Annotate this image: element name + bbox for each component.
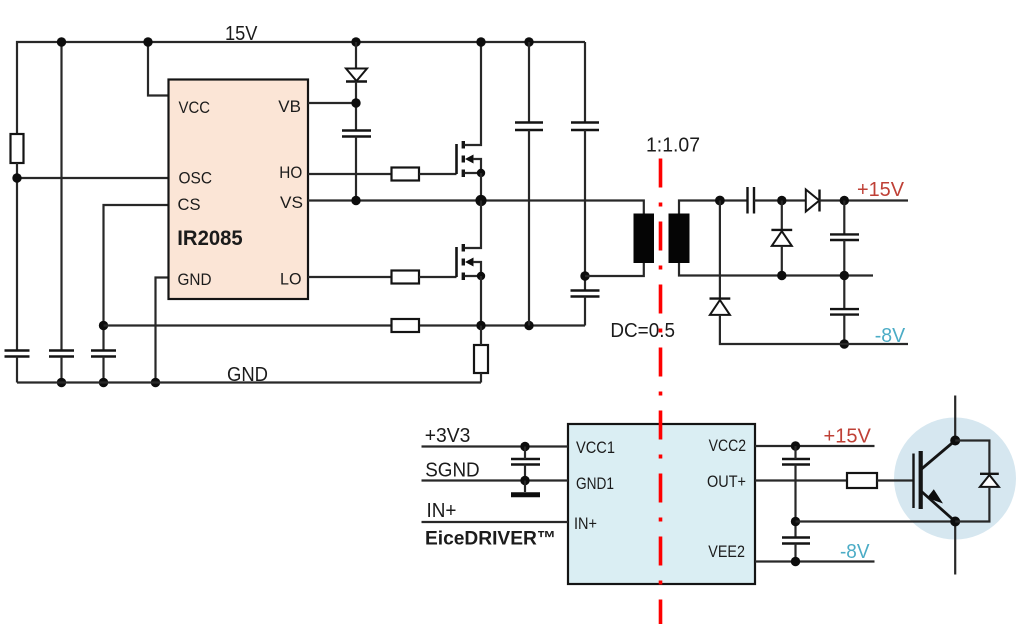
resistor R4 (sense): [392, 319, 420, 332]
capacitor C9 (+15V filter): [830, 234, 859, 240]
wire: C7 to sense net corner: [584, 297, 586, 326]
wire: D4 branch from secondary top: [719, 201, 721, 299]
wire: C6 down to primary return: [584, 130, 586, 291]
capacitor C11 (input decoupling): [511, 459, 540, 465]
wire: CS pin run: [104, 205, 169, 351]
wire: rail to bootstrap diode anode: [355, 42, 357, 69]
junction dot CS column / mid net: [99, 321, 108, 330]
transformer T1 primary winding: [634, 214, 655, 264]
junction dot emitter rail tap: [791, 517, 800, 526]
svg-text:VEE2: VEE2: [708, 542, 745, 561]
svg-text:-8V: -8V: [840, 540, 870, 563]
capacitor C10 (-8V filter): [830, 309, 859, 315]
junction dot -8V/C10: [840, 339, 849, 348]
junction dot bus/col2: [57, 378, 66, 387]
wire: isolation barrier (red dash-dot): [659, 159, 663, 624]
transistor Q1 high-side MOSFET: [457, 42, 486, 201]
wire: rail corner to C6: [584, 42, 586, 123]
wire: R2 to Q1 gate: [419, 173, 457, 175]
svg-text:IN+: IN+: [427, 499, 457, 522]
wire: primary return: [585, 263, 644, 276]
junction dot VB node: [351, 98, 360, 107]
diode D4 (-8V rectifier, pointing up): [710, 299, 731, 315]
junction dot bus/GND pin column: [151, 378, 160, 387]
svg-text:LO: LO: [280, 270, 302, 289]
svg-text:1:1.07: 1:1.07: [646, 134, 700, 157]
wire: +15V filter cap branch: [843, 201, 845, 235]
svg-text:IN+: IN+: [574, 514, 597, 533]
junction dot VCC1/C11: [520, 442, 529, 451]
wire: C10 to -8V rail: [843, 315, 845, 344]
svg-text:VCC: VCC: [179, 98, 211, 117]
op-amp U2 EiceDRIVER body: [568, 424, 755, 584]
wire: VEE2 to -8V: [755, 560, 875, 562]
wire: C13 to VEE2: [794, 544, 796, 562]
wire: 15V top rail: [17, 42, 585, 134]
wire: C3 to GND bus: [102, 357, 104, 383]
resistor R1 (left bias resistor): [11, 134, 24, 163]
wire: sense net (mid horizontal): [104, 324, 586, 326]
wire: emitter rail to IGBT: [796, 520, 956, 522]
capacitor C1 (left column): [5, 351, 30, 357]
svg-text:IR2085: IR2085: [177, 227, 243, 250]
wire: D1 cathode to VB node: [355, 82, 357, 131]
wire: GND pin run: [156, 278, 169, 383]
junction dot D2 tap: [777, 196, 786, 205]
junction dot rail/col2: [57, 37, 66, 46]
wire: R3 to Q2 gate: [419, 276, 457, 278]
junction dot sense/half-bridge column: [476, 321, 485, 330]
junction dot 15V rail / bootstrap diode: [351, 37, 360, 46]
junction dot rail / cap column: [524, 37, 533, 46]
op-amp U1 IR2085 gate driver IC body: [169, 80, 309, 300]
wire: LO pin to gate resistor: [308, 276, 392, 278]
wire: D3 to +15V: [820, 199, 909, 201]
diode D1 bootstrap (pointing down): [346, 69, 367, 82]
ground symbol (signal ground): [511, 481, 540, 495]
capacitor C5 (bus decoupling): [515, 123, 543, 131]
transistor Q2 low-side MOSFET: [457, 201, 486, 326]
resistor R5 (shunt, vertical): [474, 345, 488, 373]
capacitor C2: [49, 351, 74, 357]
transistor Q3 IGBT: [914, 396, 961, 575]
svg-text:VCC1: VCC1: [576, 438, 615, 457]
wire: D4 anode to -8V rail: [720, 315, 908, 344]
wire: C1 to GND bus corner: [16, 357, 18, 383]
svg-text:CS: CS: [178, 195, 201, 214]
junction dot VS / bootstrap cap: [351, 196, 360, 205]
svg-text:GND1: GND1: [576, 474, 614, 493]
wire: C8 to D3: [754, 199, 806, 201]
svg-text:GND: GND: [227, 363, 268, 386]
svg-text:OUT+: OUT+: [707, 472, 746, 491]
junction dot 0V/C9: [840, 271, 849, 280]
wire: C2 to GND bus: [60, 357, 62, 383]
junction dot GND1/ground: [520, 476, 529, 485]
svg-text:GND: GND: [178, 270, 212, 289]
junction dot sense/cap column: [524, 321, 533, 330]
capacitor C12 (VCC2 decoupling): [782, 459, 810, 465]
wire: OSC pin run: [17, 177, 169, 179]
junction dot VCC2/C12: [791, 441, 800, 450]
junction dot VS / half-bridge mid: [475, 195, 486, 206]
wire: R1 to OSC node: [16, 163, 18, 351]
junction dot secondary top: [715, 196, 725, 206]
wire: OUT+ to gate resistor: [755, 479, 847, 481]
capacitor C7 (primary DC blocking): [571, 291, 600, 297]
junction dot rail / half-bridge column: [476, 37, 485, 46]
resistor R3 (LO gate): [392, 271, 420, 284]
wire: C5 to sense net: [528, 130, 530, 326]
svg-text:SGND: SGND: [425, 458, 480, 481]
wire: VCC2 to +15V: [755, 445, 875, 447]
capacitor C8 (series, +15V path): [748, 187, 755, 214]
resistor R2 (HO gate): [392, 168, 420, 181]
wire: HO pin to gate resistor: [308, 173, 392, 175]
junction dot bus/col3: [99, 378, 108, 387]
svg-text:OSC: OSC: [179, 169, 213, 188]
wire: C9 to 0V rail: [843, 240, 845, 309]
wire: second column from rail: [60, 42, 62, 351]
junction dot 0V/D2: [777, 271, 786, 280]
svg-text:+3V3: +3V3: [425, 424, 471, 447]
wire: R5 to GND bus: [480, 373, 482, 383]
wire: C11 leads: [524, 447, 526, 460]
svg-text:HO: HO: [279, 163, 302, 182]
wire: C4 to VS: [355, 137, 357, 201]
svg-text:-8V: -8V: [875, 324, 906, 347]
wire: secondary bottom out (0V mid rail): [679, 263, 873, 276]
svg-text:DC=0.5: DC=0.5: [610, 319, 675, 342]
resistor R6 (IGBT gate): [847, 473, 877, 488]
svg-text:+15V: +15V: [824, 424, 872, 447]
svg-text:EiceDRIVER™: EiceDRIVER™: [425, 528, 556, 550]
wire: R6 to IGBT gate: [877, 479, 914, 481]
diode D5 freewheeling across IGBT: [955, 441, 999, 522]
highlight circle behind IGBT: [894, 418, 1016, 540]
wire: VS net from IC to transformer primary: [308, 201, 644, 214]
junction dot VEE2/C13: [791, 557, 800, 566]
capacitor C13 (VEE2 decoupling): [782, 538, 810, 544]
diode D3 (series to +15V): [806, 190, 820, 212]
wire: C12 leads: [794, 446, 796, 459]
wire: SGND to GND1: [422, 479, 569, 481]
svg-text:15V: 15V: [225, 22, 258, 45]
svg-text:VCC2: VCC2: [709, 436, 746, 455]
wire: VCC pin run: [148, 42, 169, 96]
wire: +3V3 to VCC1: [422, 445, 569, 447]
diode D2 (shunt rectifier, pointing up): [771, 230, 792, 246]
wire: rail to C5: [528, 42, 530, 123]
wire: VB pin to bootstrap node: [308, 102, 356, 104]
wire: IN+ input: [422, 521, 569, 523]
capacitor C4 bootstrap: [342, 131, 371, 137]
junction dot primary return: [580, 271, 589, 280]
svg-text:+15V: +15V: [857, 178, 904, 201]
junction dot OSC/left column: [12, 173, 21, 182]
junction dot +15V cap tap: [840, 196, 849, 205]
capacitor C6 (bus decoupling 2): [571, 123, 599, 131]
wire: D2 branch: [781, 201, 783, 230]
svg-text:VB: VB: [278, 97, 301, 116]
transformer T1 secondary winding: [669, 214, 690, 264]
wire: secondary top out: [679, 201, 748, 214]
wire: R5 leads: [480, 326, 482, 346]
svg-text:VS: VS: [280, 193, 303, 212]
wire: D2 anode to 0V rail: [781, 246, 783, 276]
wire: GND bus: [17, 381, 481, 383]
capacitor C3: [91, 351, 116, 357]
junction dot rail/VCC: [143, 37, 152, 46]
